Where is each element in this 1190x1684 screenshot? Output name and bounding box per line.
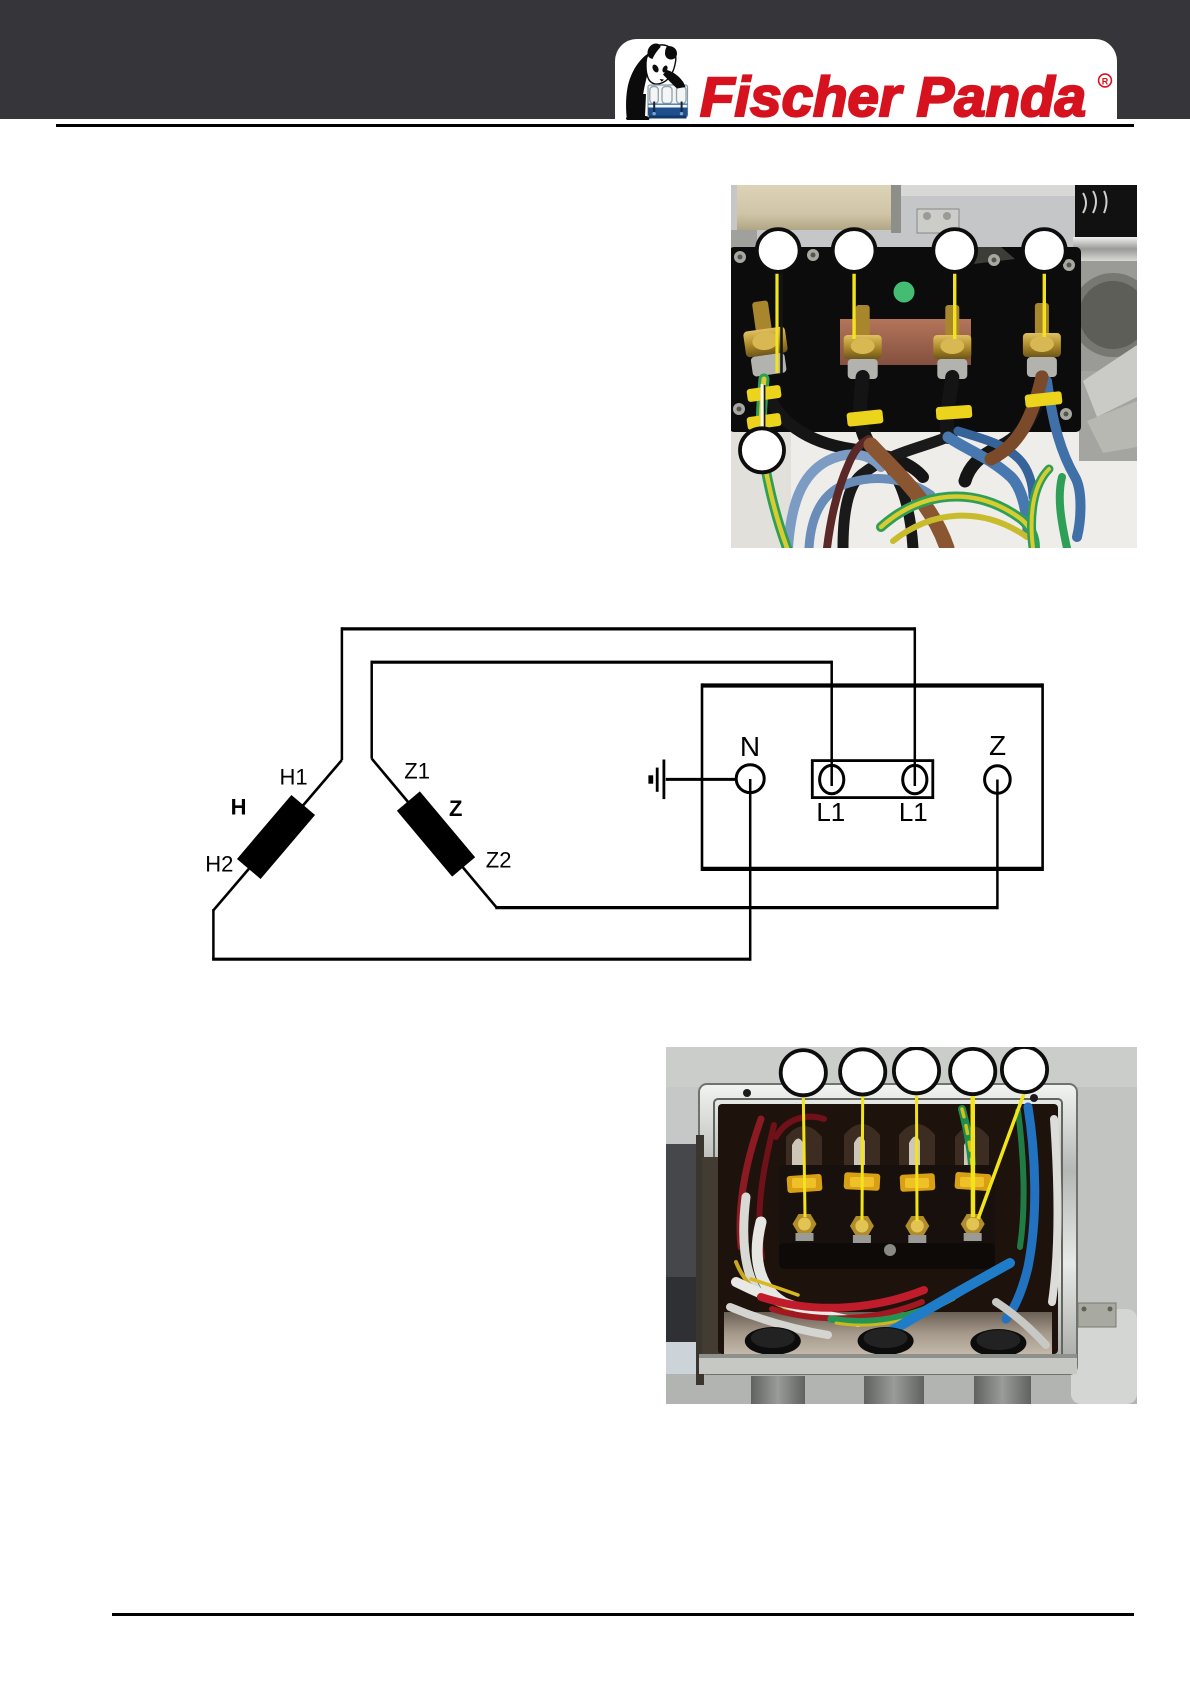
header rule — [56, 124, 1134, 127]
green dot sticker — [894, 282, 915, 303]
photo 1 : generator terminal block — [731, 185, 1137, 548]
photo 2 : junction box — [666, 1047, 1137, 1404]
small screw between terminals — [884, 1244, 896, 1256]
hinge bracket — [917, 209, 959, 233]
panda generator box — [648, 85, 688, 119]
yellow cable ties — [746, 385, 1062, 431]
yellow ties on bar — [786, 1172, 991, 1193]
wire Z1 diagonal — [372, 759, 497, 908]
terminal bar — [779, 1165, 995, 1269]
right machine part — [1071, 1309, 1137, 1404]
svg-text:Fischer Panda: Fischer Panda — [700, 65, 1086, 120]
lower crossing wires — [730, 1263, 1046, 1345]
brushed aluminium panel top left — [737, 185, 893, 230]
interior wires upper left — [736, 1107, 1058, 1319]
svg-text:Z: Z — [989, 730, 1006, 761]
black terminal panel — [729, 247, 1081, 432]
light blue cables — [788, 454, 881, 548]
right vertical wires — [962, 1109, 973, 1215]
machinery left edge — [731, 230, 757, 445]
callout leader lines — [803, 1092, 1024, 1221]
ground wire — [666, 778, 737, 781]
machinery right side — [1079, 371, 1137, 461]
interior arch reflections — [786, 1124, 989, 1177]
terminal box — [702, 686, 1043, 869]
svg-text:N: N — [740, 731, 760, 762]
left background — [666, 1087, 700, 1377]
winding Z — [397, 791, 475, 876]
ground symbol — [648, 760, 665, 800]
brass terminals — [793, 1214, 985, 1243]
svg-text:L1: L1 — [899, 797, 928, 827]
interior floor — [724, 1312, 1052, 1354]
frame screws — [743, 1089, 751, 1097]
air filter black cylinder top right — [1075, 185, 1137, 247]
svg-text:H2: H2 — [205, 852, 233, 877]
grommets — [745, 1327, 1027, 1357]
terminal N — [736, 765, 764, 793]
maroon wire — [827, 439, 869, 548]
wire H1 diagonal — [213, 760, 342, 910]
wire H1 to right L1 — [342, 627, 915, 630]
footer rule — [112, 1613, 1134, 1616]
cables below terminals — [761, 377, 1081, 548]
conduit cylinders below box — [751, 1376, 805, 1404]
terminal Z — [985, 766, 1011, 794]
callout circles — [781, 1047, 1047, 1095]
wire Z2 to Z — [495, 906, 997, 909]
panel screws — [733, 249, 1075, 420]
brown cable — [871, 445, 947, 548]
svg-text:L1: L1 — [816, 797, 845, 827]
photo background — [666, 1047, 1137, 1404]
white foam bottom — [731, 423, 1137, 548]
copper busbar — [840, 319, 971, 365]
callout leader lines — [762, 271, 1044, 429]
logo graphic — [615, 39, 1117, 120]
callout circles — [740, 229, 1066, 472]
left frame shadow — [696, 1135, 704, 1385]
terminal studs and nuts — [739, 298, 1061, 379]
svg-text:R: R — [1102, 77, 1109, 87]
photo background — [731, 185, 1137, 548]
svg-text:Z2: Z2 — [486, 847, 512, 872]
labels — [205, 730, 1006, 877]
winding H — [237, 795, 315, 879]
L1 link rectangle — [812, 761, 933, 798]
registered mark — [1099, 74, 1112, 87]
panda head — [646, 45, 676, 84]
black cable cluster — [764, 381, 923, 477]
header bar — [0, 0, 1190, 119]
svg-text:Z1: Z1 — [404, 759, 430, 784]
wire H2 to N — [213, 779, 750, 961]
logo box — [615, 39, 1117, 120]
frame bottom band — [699, 1354, 1077, 1374]
wiring diagram — [180, 615, 1060, 975]
terminal L1 left — [820, 765, 844, 793]
svg-text:H: H — [231, 794, 247, 819]
svg-text:Z: Z — [449, 796, 462, 821]
panda body — [626, 50, 656, 121]
stainless steel frame — [699, 1084, 1077, 1374]
green/yellow cables — [761, 379, 764, 437]
bottom background — [666, 1374, 1137, 1404]
panda arm over box — [663, 70, 686, 89]
svg-text:H1: H1 — [280, 764, 308, 789]
terminal L1 right — [903, 765, 927, 793]
box interior — [718, 1104, 1058, 1354]
wire Z1 to left L1 — [372, 661, 832, 664]
